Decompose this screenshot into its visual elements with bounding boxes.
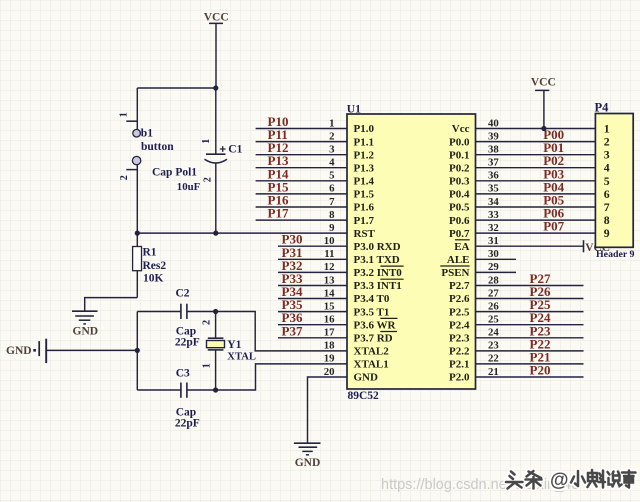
svg-text:VCC: VCC — [204, 11, 229, 23]
wire — [46, 349, 137, 351]
svg-text:10uF: 10uF — [177, 181, 201, 193]
svg-text:26: 26 — [488, 300, 499, 312]
svg-text:Y1: Y1 — [227, 339, 241, 351]
wire (crystal loop left vertical) — [136, 312, 138, 391]
svg-text:P1.7: P1.7 — [354, 215, 375, 227]
svg-text:22pF: 22pF — [175, 418, 200, 430]
junction A — [213, 85, 218, 90]
svg-text:7: 7 — [604, 200, 610, 214]
capacitor C3 — [137, 383, 215, 398]
wire net P34 — [278, 298, 347, 300]
svg-text:20: 20 — [324, 366, 335, 378]
junction C — [213, 231, 218, 236]
watermark headline char 条 — [526, 471, 542, 489]
svg-text:29: 29 — [488, 261, 499, 273]
svg-text:2: 2 — [119, 175, 130, 180]
svg-text:GND: GND — [6, 345, 32, 357]
power port VCC (top left) — [204, 11, 229, 88]
svg-text:EA: EA — [454, 241, 469, 253]
capacitor C1 (polarized) — [205, 88, 228, 233]
svg-text:3: 3 — [329, 144, 335, 156]
svg-text:RST: RST — [354, 228, 376, 240]
svg-text:Cap: Cap — [176, 406, 196, 418]
svg-text:34: 34 — [488, 196, 499, 208]
watermark headline 头条 @小魁说事 — [506, 470, 636, 491]
svg-text:7: 7 — [329, 196, 335, 208]
svg-text:P2.4: P2.4 — [449, 319, 470, 331]
svg-text:@: @ — [550, 470, 569, 491]
svg-text:4: 4 — [329, 157, 335, 169]
wire net P14 — [256, 180, 347, 182]
svg-text:Res2: Res2 — [143, 260, 167, 272]
svg-text:P0.5: P0.5 — [449, 202, 470, 214]
svg-text:P3.6 WR: P3.6 WR — [354, 319, 397, 331]
wire net VCC row (U1 to P4) — [476, 128, 596, 130]
svg-text:P2.3: P2.3 — [449, 333, 470, 345]
svg-text:P0.7: P0.7 — [449, 228, 470, 240]
wire net P10 — [256, 128, 347, 130]
wire net P05 (U1 to P4) — [476, 206, 596, 208]
svg-text:P1.3: P1.3 — [354, 162, 375, 174]
svg-text:6: 6 — [604, 187, 610, 201]
connector P4 Header 9 body — [595, 114, 633, 248]
button b1 — [132, 88, 140, 233]
watermark headline char 魁 — [588, 470, 606, 488]
svg-text:P3.3 INT1: P3.3 INT1 — [354, 280, 402, 292]
U1 pin 13 INT1 overline — [380, 278, 403, 280]
svg-text:5: 5 — [604, 174, 610, 188]
ground (below R1) — [72, 311, 98, 324]
svg-text:23: 23 — [488, 340, 499, 352]
svg-text:2: 2 — [202, 177, 213, 182]
svg-text:P0.2: P0.2 — [449, 162, 470, 174]
svg-text:P3.7 RD: P3.7 RD — [354, 333, 393, 345]
svg-text:C3: C3 — [176, 368, 190, 380]
wire net P06 (U1 to P4) — [476, 219, 596, 221]
svg-text:P3.1 TXD: P3.1 TXD — [354, 254, 400, 266]
button b1 pin 2 tick — [126, 169, 137, 171]
svg-text:P1.2: P1.2 — [354, 149, 375, 161]
svg-text:P2.6: P2.6 — [449, 293, 470, 305]
svg-text:P3.5 T1: P3.5 T1 — [354, 306, 390, 318]
svg-text:P3.4 T0: P3.4 T0 — [354, 293, 390, 305]
svg-text:b1: b1 — [141, 127, 153, 139]
svg-text:2: 2 — [604, 135, 610, 149]
capacitor C2 — [137, 304, 215, 319]
svg-text:P2.2: P2.2 — [449, 346, 470, 358]
svg-text:Vcc: Vcc — [452, 123, 470, 135]
svg-text:Header 9: Header 9 — [596, 249, 635, 260]
svg-text:ALE: ALE — [447, 254, 470, 266]
wire — [216, 364, 347, 390]
svg-text:1: 1 — [201, 363, 212, 368]
svg-text:30: 30 — [488, 248, 499, 260]
svg-text:14: 14 — [324, 287, 335, 299]
svg-text:1: 1 — [604, 122, 610, 136]
wire net P26 — [476, 298, 584, 300]
svg-text:21: 21 — [488, 366, 499, 378]
wire net P04 (U1 to P4) — [476, 193, 596, 195]
wire — [137, 232, 347, 234]
svg-text:P0.1: P0.1 — [449, 149, 469, 161]
svg-text:2: 2 — [329, 130, 334, 142]
svg-text:4: 4 — [604, 161, 610, 175]
svg-text:P1.5: P1.5 — [354, 189, 375, 201]
svg-text:GND: GND — [73, 326, 99, 338]
U1 pin 16 WR overline — [380, 317, 397, 319]
wire net P33 — [278, 285, 347, 287]
watermark headline char 小 — [571, 471, 585, 486]
svg-text:XTAL: XTAL — [227, 352, 256, 363]
wire net P32 — [278, 271, 347, 273]
svg-text:XTAL1: XTAL1 — [354, 359, 389, 371]
svg-text:P4: P4 — [595, 100, 610, 114]
wire net P22 — [476, 350, 584, 352]
svg-text:40: 40 — [488, 117, 499, 129]
wire net P35 — [278, 311, 347, 313]
junction B — [135, 231, 140, 236]
svg-text:1: 1 — [201, 139, 212, 144]
U1 pin 29 PSEN overline — [440, 265, 469, 267]
svg-text:11: 11 — [324, 248, 334, 260]
svg-text:button: button — [141, 141, 174, 153]
wire net P16 — [256, 206, 347, 208]
svg-text:89C52: 89C52 — [348, 390, 380, 402]
wire U1 pin 29 PSEN stub — [476, 271, 517, 273]
wire — [216, 312, 347, 351]
svg-text:2: 2 — [201, 320, 212, 325]
wire net P20 — [476, 376, 584, 378]
IC U1 89C52 body — [347, 114, 476, 389]
svg-text:24: 24 — [488, 327, 499, 339]
svg-text:P1.0: P1.0 — [354, 123, 375, 135]
svg-text:C2: C2 — [176, 287, 190, 299]
svg-text:P0.6: P0.6 — [449, 215, 470, 227]
wire net P02 (U1 to P4) — [476, 167, 596, 169]
wire net P31 — [278, 258, 347, 260]
wire U1 pin 30 ALE stub — [476, 258, 517, 260]
svg-text:28: 28 — [488, 274, 499, 286]
wire net P23 — [476, 337, 584, 339]
svg-text:38: 38 — [488, 144, 499, 156]
svg-text:Cap: Cap — [176, 325, 196, 337]
svg-text:P37: P37 — [282, 323, 303, 338]
svg-text:Cap Pol1: Cap Pol1 — [152, 166, 197, 178]
wire net P12 — [256, 154, 347, 156]
svg-text:P3.0 RXD: P3.0 RXD — [354, 241, 401, 253]
svg-text:1: 1 — [329, 117, 334, 129]
wire net P37 — [278, 337, 347, 339]
wire net P15 — [256, 193, 347, 195]
U1 pin 31 EA overline — [455, 239, 470, 241]
svg-text:P0.0: P0.0 — [449, 136, 470, 148]
wire net EA to VCC port — [476, 245, 584, 247]
svg-text:GND: GND — [354, 372, 379, 384]
wire net P07 (U1 to P4) — [476, 232, 596, 234]
wire net P00 (U1 to P4) — [476, 141, 596, 143]
wire net P27 — [476, 285, 584, 287]
wire net P21 — [476, 363, 584, 365]
wire net P11 — [256, 141, 347, 143]
svg-text:P3.2 INT0: P3.2 INT0 — [354, 267, 403, 279]
power port VCC (top right) — [531, 76, 556, 128]
svg-text:33: 33 — [488, 209, 499, 221]
svg-text:5: 5 — [329, 170, 334, 182]
wire net P01 (U1 to P4) — [476, 154, 596, 156]
wire net P30 — [278, 245, 347, 247]
wire — [137, 87, 216, 89]
svg-text:13: 13 — [324, 274, 335, 286]
svg-text:P2.5: P2.5 — [449, 306, 470, 318]
wire — [85, 298, 138, 311]
svg-text:15: 15 — [324, 300, 335, 312]
svg-text:19: 19 — [324, 353, 335, 365]
svg-text:9: 9 — [604, 226, 610, 240]
svg-text:P2.1: P2.1 — [449, 359, 469, 371]
resistor R1 — [133, 233, 142, 298]
svg-text:39: 39 — [488, 130, 499, 142]
svg-text:P17: P17 — [268, 206, 289, 221]
ground power port (far left) — [6, 339, 46, 363]
crystal Y1 — [207, 312, 225, 391]
svg-text:18: 18 — [324, 340, 335, 352]
svg-text:10: 10 — [324, 235, 335, 247]
svg-text:P2.7: P2.7 — [449, 280, 470, 292]
svg-text:22pF: 22pF — [175, 337, 200, 349]
wire net P25 — [476, 311, 584, 313]
junction E — [213, 309, 218, 314]
svg-text:17: 17 — [324, 327, 335, 339]
svg-text:XTAL2: XTAL2 — [354, 346, 390, 358]
svg-text:16: 16 — [324, 314, 335, 326]
junction G — [541, 126, 546, 131]
svg-text:3: 3 — [604, 148, 610, 162]
svg-text:22: 22 — [488, 353, 499, 365]
svg-text:P1.1: P1.1 — [354, 136, 374, 148]
svg-text:36: 36 — [488, 170, 499, 182]
svg-text:P1.6: P1.6 — [354, 202, 375, 214]
svg-text:P0.3: P0.3 — [449, 176, 470, 188]
button b1 pin 1 tick — [126, 120, 137, 122]
wire net P17 — [256, 219, 347, 221]
wire net P03 (U1 to P4) — [476, 180, 596, 182]
svg-text:8: 8 — [329, 209, 335, 221]
svg-text:37: 37 — [488, 157, 499, 169]
wire net P36 — [278, 324, 347, 326]
power port VCC (at EA pin) — [584, 240, 611, 254]
svg-text:12: 12 — [324, 261, 335, 273]
svg-text:GND: GND — [295, 457, 321, 469]
watermark headline char 事 — [622, 471, 636, 488]
svg-text:P07: P07 — [543, 219, 564, 234]
svg-text:9: 9 — [329, 222, 335, 234]
U1 pin 17 RD overline — [380, 331, 397, 333]
ground (below U1 pin 20) — [294, 443, 321, 455]
svg-text:C1: C1 — [228, 143, 242, 155]
svg-text:P2.0: P2.0 — [449, 372, 470, 384]
svg-text:35: 35 — [488, 183, 499, 195]
svg-text:P0.4: P0.4 — [449, 189, 470, 201]
svg-text:31: 31 — [488, 235, 499, 247]
watermark headline char 说 — [608, 472, 622, 487]
svg-text:PSEN: PSEN — [441, 267, 469, 279]
junction F — [213, 387, 218, 392]
watermark headline char 头 — [506, 472, 523, 489]
svg-text:25: 25 — [488, 314, 499, 326]
svg-text:VCC: VCC — [531, 76, 556, 88]
U1 pin 12 INT0 overline — [380, 265, 403, 267]
svg-text:P1.4: P1.4 — [354, 176, 375, 188]
svg-text:27: 27 — [488, 287, 499, 299]
wire net P13 — [256, 167, 347, 169]
wire — [308, 377, 348, 443]
junction D — [135, 348, 140, 353]
svg-text:1: 1 — [119, 112, 130, 117]
svg-text:P20: P20 — [530, 363, 551, 378]
wire net P24 — [476, 324, 584, 326]
svg-text:R1: R1 — [143, 247, 157, 259]
svg-text:U1: U1 — [347, 103, 361, 115]
svg-text:32: 32 — [488, 222, 499, 234]
svg-text:8: 8 — [604, 213, 610, 227]
svg-text:10K: 10K — [143, 273, 164, 285]
svg-text:6: 6 — [329, 183, 335, 195]
